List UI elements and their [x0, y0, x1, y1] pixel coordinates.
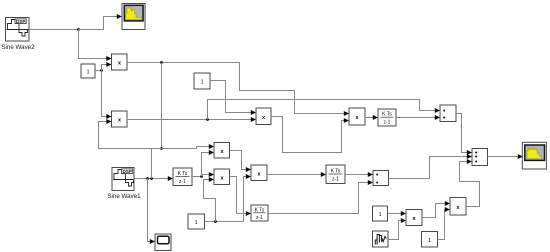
block constant C2 value 1	[194, 73, 210, 89]
wire node G up to node D horizontal	[151, 149, 153, 179]
node H junction on D2 output	[200, 175, 203, 178]
block Sine Wave2	[1, 18, 35, 52]
node D junction	[160, 147, 163, 150]
wire junction B up to X1 lower input	[102, 65, 107, 71]
svg-text:DSP: DSP	[16, 19, 25, 24]
wire C5 output right and up to X9 lower input	[438, 210, 446, 240]
svg-text:x: x	[262, 115, 265, 121]
block discrete integrator D2 K Ts/z-1	[173, 168, 192, 186]
block Spectrum Scope1	[122, 4, 145, 30]
wire C3 output right and up to X7 lower input	[205, 177, 247, 222]
wire junction B down to X2 upper input	[102, 71, 107, 117]
block sum S3	[373, 171, 389, 186]
wire Sine Wave2 output to junction A	[29, 29, 79, 31]
wire X1 output to junction C and to product X4 upper input	[127, 63, 344, 114]
wire X6 output down to integrator D4 input	[230, 177, 247, 214]
wire X4 output to integrator D1 input	[365, 117, 373, 119]
wire Sine Wave1 output to integrator D2 input	[134, 178, 168, 180]
svg-text:Sine Wave2: Sine Wave2	[1, 44, 35, 51]
wire X8 output right and up to X9 upper input	[422, 204, 445, 218]
block Spectrum Scope2	[522, 142, 546, 169]
block constant C3 value 1	[188, 214, 205, 229]
block product X3	[256, 108, 271, 125]
svg-text:x: x	[258, 171, 261, 177]
node G junction on Sine Wave1 output	[150, 177, 153, 180]
svg-text:z-1: z-1	[332, 177, 339, 183]
block constant C1 value 1	[81, 64, 95, 78]
wire node D left and up to X2 lower input	[99, 122, 162, 149]
block sum S1	[440, 105, 456, 122]
node C junction on X1 output	[160, 61, 163, 64]
svg-text:x: x	[118, 61, 121, 67]
wire X9 output right up left up to sum S2 lower input	[460, 162, 480, 207]
svg-text:1: 1	[194, 220, 197, 226]
wire D3 output to sum S3 upper input	[345, 174, 368, 176]
node A junction on Sine Wave2 output	[77, 28, 80, 31]
wire junction H up to X5 lower input	[202, 153, 210, 177]
block product X1	[112, 54, 128, 70]
wire S1 output down to sum S2 first input	[456, 114, 467, 153]
wire junction A down to product X1 upper input	[79, 30, 107, 59]
block product X8	[406, 210, 422, 226]
wire D2 output to junction H	[192, 176, 202, 178]
wire C1 output to junction B	[95, 70, 102, 72]
wire junction C down to node D	[161, 63, 163, 149]
wire junction A to Spectrum Scope1	[79, 17, 118, 30]
svg-text:K Ts: K Ts	[382, 112, 392, 118]
svg-text:z-1: z-1	[179, 179, 186, 185]
block discrete integrator D3 K Ts/z-1	[326, 165, 345, 184]
wire node E up and right to sum S1 upper input	[208, 100, 436, 120]
block constant C4 value 1	[373, 206, 388, 221]
block product X9	[450, 198, 466, 216]
svg-text:x: x	[356, 115, 359, 121]
svg-text:1: 1	[378, 212, 381, 218]
wire X5 output down to X7 upper input	[230, 151, 247, 170]
block discrete integrator D4 K Ts/z-1	[251, 205, 268, 221]
wire C2 output down to X3 upper input	[210, 81, 251, 113]
svg-text:K Ts: K Ts	[178, 171, 188, 177]
block signal source W1	[373, 231, 389, 247]
block constant C5 value 1	[422, 232, 438, 248]
block Sine Wave1	[107, 168, 141, 201]
svg-text:x: x	[118, 118, 121, 124]
svg-text:Sine Wave1: Sine Wave1	[107, 193, 141, 200]
wire junction I up left up to X6 lower input	[204, 180, 216, 222]
block discrete integrator D1 K Ts/z-1	[378, 109, 396, 126]
svg-text:z-1: z-1	[256, 215, 263, 221]
wire node D right and up to X5 upper input	[162, 147, 210, 149]
svg-text:x: x	[221, 149, 224, 155]
node I junction on C3 output	[214, 220, 217, 223]
block product X7	[251, 165, 267, 181]
svg-text:x: x	[221, 175, 224, 181]
svg-text:x: x	[457, 205, 460, 211]
wire C4 output to X8 upper input	[388, 213, 402, 215]
wire D4 output right and up to sum S3 lower input	[268, 183, 368, 214]
wire S2 output to Spectrum Scope2	[488, 156, 519, 158]
wire X3 output down right up to X4 lower input	[271, 117, 344, 153]
block sum S2	[472, 149, 488, 166]
wire X2 output to X3 lower input	[127, 119, 251, 121]
wire junction H to X6 upper input	[202, 175, 210, 177]
svg-text:1: 1	[428, 238, 431, 244]
block product X6	[214, 169, 230, 185]
wire D1 output to sum S1 lower input	[396, 117, 435, 119]
wire S3 output right and up to sum S2 middle input	[389, 157, 468, 179]
svg-text:x: x	[413, 216, 416, 222]
wire W1 output right and up to X8 lower input	[388, 221, 401, 240]
svg-text:K Ts: K Ts	[331, 168, 341, 174]
block product X4	[349, 108, 365, 125]
wire node F down to Scope input	[148, 179, 151, 242]
block Scope	[155, 234, 171, 251]
node F junction on Sine Wave1 output	[146, 177, 149, 180]
node B junction on C1 output	[100, 69, 103, 72]
block product X2	[112, 111, 128, 127]
node E junction on X2 output	[206, 118, 209, 121]
svg-text:1: 1	[86, 70, 89, 76]
svg-text:z-1: z-1	[384, 120, 391, 126]
svg-text:1: 1	[200, 80, 203, 86]
svg-text:DSP: DSP	[122, 169, 131, 174]
wire X7 output to integrator D3 input	[267, 174, 321, 176]
block product X5	[214, 143, 230, 159]
